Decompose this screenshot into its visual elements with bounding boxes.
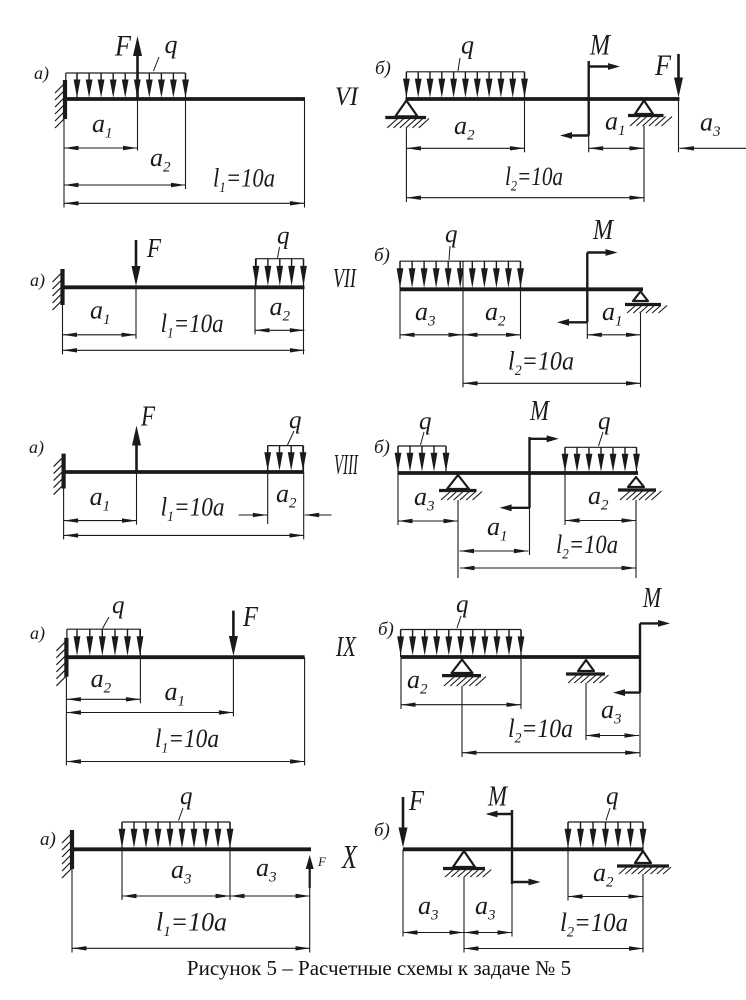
svg-text:F: F [114,30,131,63]
svg-text:a3: a3 [700,108,721,141]
svg-text:a1: a1 [90,296,111,329]
svg-text:а): а) [30,623,45,644]
svg-text:a2: a2 [91,664,112,697]
svg-text:a3: a3 [418,891,439,924]
svg-text:a2: a2 [150,143,171,176]
svg-text:a2: a2 [588,481,609,514]
svg-text:a2: a2 [276,479,297,512]
svg-text:q: q [289,407,302,434]
svg-text:l2=10a: l2=10a [508,347,574,380]
svg-text:F: F [242,602,259,633]
svg-text:F: F [654,49,671,82]
svg-text:l1=10a: l1=10a [155,724,219,757]
svg-text:a1: a1 [92,109,113,142]
svg-text:а): а) [30,270,45,291]
svg-text:F: F [317,854,327,869]
svg-text:l2=10a: l2=10a [560,908,628,941]
svg-text:a2: a2 [454,111,475,144]
svg-text:VI: VI [335,82,359,111]
svg-text:VII: VII [333,263,357,293]
svg-text:q: q [277,223,290,250]
svg-text:l2=10a: l2=10a [556,530,618,563]
svg-text:a2: a2 [485,297,506,330]
svg-text:q: q [456,591,469,618]
svg-text:M: M [487,782,508,813]
svg-text:a1: a1 [605,107,626,140]
svg-text:F: F [408,786,425,817]
svg-text:a2: a2 [407,665,428,698]
svg-text:a1: a1 [602,297,623,330]
svg-text:l1=10a: l1=10a [156,908,227,941]
svg-text:a2: a2 [593,858,614,891]
svg-text:F: F [140,402,156,433]
svg-text:l2=10a: l2=10a [508,714,573,747]
svg-text:а): а) [40,829,56,850]
svg-text:a2: a2 [270,292,291,325]
svg-text:X: X [341,839,358,876]
svg-text:q: q [606,783,619,810]
svg-text:VIII: VIII [334,450,359,481]
svg-text:IX: IX [335,632,356,663]
svg-text:б): б) [374,245,390,266]
svg-text:q: q [445,221,458,248]
svg-text:q: q [461,31,474,60]
svg-text:q: q [180,783,193,810]
svg-text:б): б) [374,820,390,841]
svg-text:M: M [642,583,662,614]
svg-text:M: M [589,29,611,62]
svg-text:q: q [598,408,611,435]
svg-text:а): а) [29,437,44,458]
svg-text:l1=10a: l1=10a [161,493,225,526]
svg-text:l1=10a: l1=10a [213,164,275,197]
svg-text:a1: a1 [90,482,111,515]
svg-text:q: q [419,408,432,435]
svg-text:б): б) [374,437,390,458]
svg-text:q: q [112,592,125,619]
svg-text:б): б) [378,619,394,640]
svg-text:l1=10a: l1=10a [161,309,224,342]
svg-text:a3: a3 [601,695,622,728]
svg-text:a3: a3 [415,297,436,330]
svg-text:a3: a3 [171,855,192,888]
svg-text:Рисунок 5 – Расчетные схемы к: Рисунок 5 – Расчетные схемы к задаче № 5 [187,956,571,980]
svg-text:M: M [592,215,614,246]
svg-text:M: M [529,396,550,427]
svg-text:F: F [146,233,161,263]
svg-text:a1: a1 [487,512,508,545]
svg-text:б): б) [375,58,391,79]
svg-text:а): а) [34,63,49,84]
svg-text:a3: a3 [256,853,277,886]
svg-text:a1: a1 [165,677,186,710]
svg-text:a3: a3 [414,482,435,515]
svg-text:a3: a3 [475,891,496,924]
svg-text:q: q [165,30,178,59]
svg-text:l2=10a: l2=10a [505,162,563,195]
